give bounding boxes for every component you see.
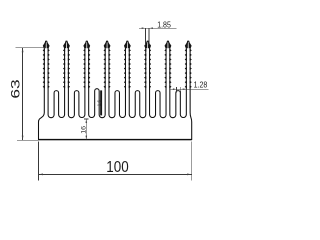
fin 7 serrations and cap xyxy=(165,41,172,48)
svg-text:1.85: 1.85 xyxy=(157,20,171,29)
dimension 1.85: left arrow xyxy=(142,27,146,29)
dimension 1.28: left arrow xyxy=(173,88,177,90)
dimension 63: top arrow xyxy=(22,48,24,53)
dimension 100: dimension line xyxy=(38,173,191,175)
svg-text:16: 16 xyxy=(81,126,88,134)
base bottom line (thick) xyxy=(39,139,192,141)
fin 6 serrations and cap xyxy=(144,41,151,48)
dimension 63: dimension line xyxy=(22,48,24,141)
fin 8 serrations and cap xyxy=(185,41,192,48)
dimension 1.85: dimension/leader line xyxy=(139,27,177,29)
dimension 16: bottom arrow xyxy=(86,136,88,140)
dimension 63: extension line bottom xyxy=(17,140,39,142)
dimension 16: extension tick xyxy=(84,118,89,120)
dimension 1.85: right arrow xyxy=(149,27,153,29)
dimension 1.28: extension line right xyxy=(180,87,182,93)
svg-text:1.6: 1.6 xyxy=(96,99,101,106)
slot dimension: filled arrow bar xyxy=(100,90,102,115)
dimension 100: extension line right xyxy=(191,142,193,181)
svg-text:1.28: 1.28 xyxy=(194,80,208,89)
svg-text:63: 63 xyxy=(10,79,23,98)
dimension 1.28: extension line left xyxy=(176,87,178,93)
heatsink extruded profile outline (8 serrated fins, 7 stub fins, base slab) xyxy=(39,41,192,139)
fin 4 serrations and cap xyxy=(104,41,111,48)
fin 1 serrations and cap xyxy=(43,41,50,48)
fin 3 serrations and cap xyxy=(83,41,90,48)
dimension 100: extension line left xyxy=(37,142,39,181)
dimension 16: top arrow xyxy=(86,119,88,123)
dimension 1.85: extension line right xyxy=(148,28,150,45)
dimension 1.85: extension line left xyxy=(145,28,147,45)
dimension 100: left arrow xyxy=(38,174,43,176)
dimension 1.28: dimension/leader line xyxy=(170,88,208,90)
dimension 1.28: right arrow xyxy=(181,88,185,90)
dimension 100: right arrow xyxy=(187,174,192,176)
svg-text:100: 100 xyxy=(106,159,128,176)
fin 5 serrations and cap xyxy=(124,41,131,48)
dimension 63: extension line top xyxy=(15,47,45,49)
dimension 16: dimension line xyxy=(85,119,87,140)
fin 2 serrations and cap xyxy=(63,41,70,48)
dimension 63: bottom arrow xyxy=(22,136,24,141)
